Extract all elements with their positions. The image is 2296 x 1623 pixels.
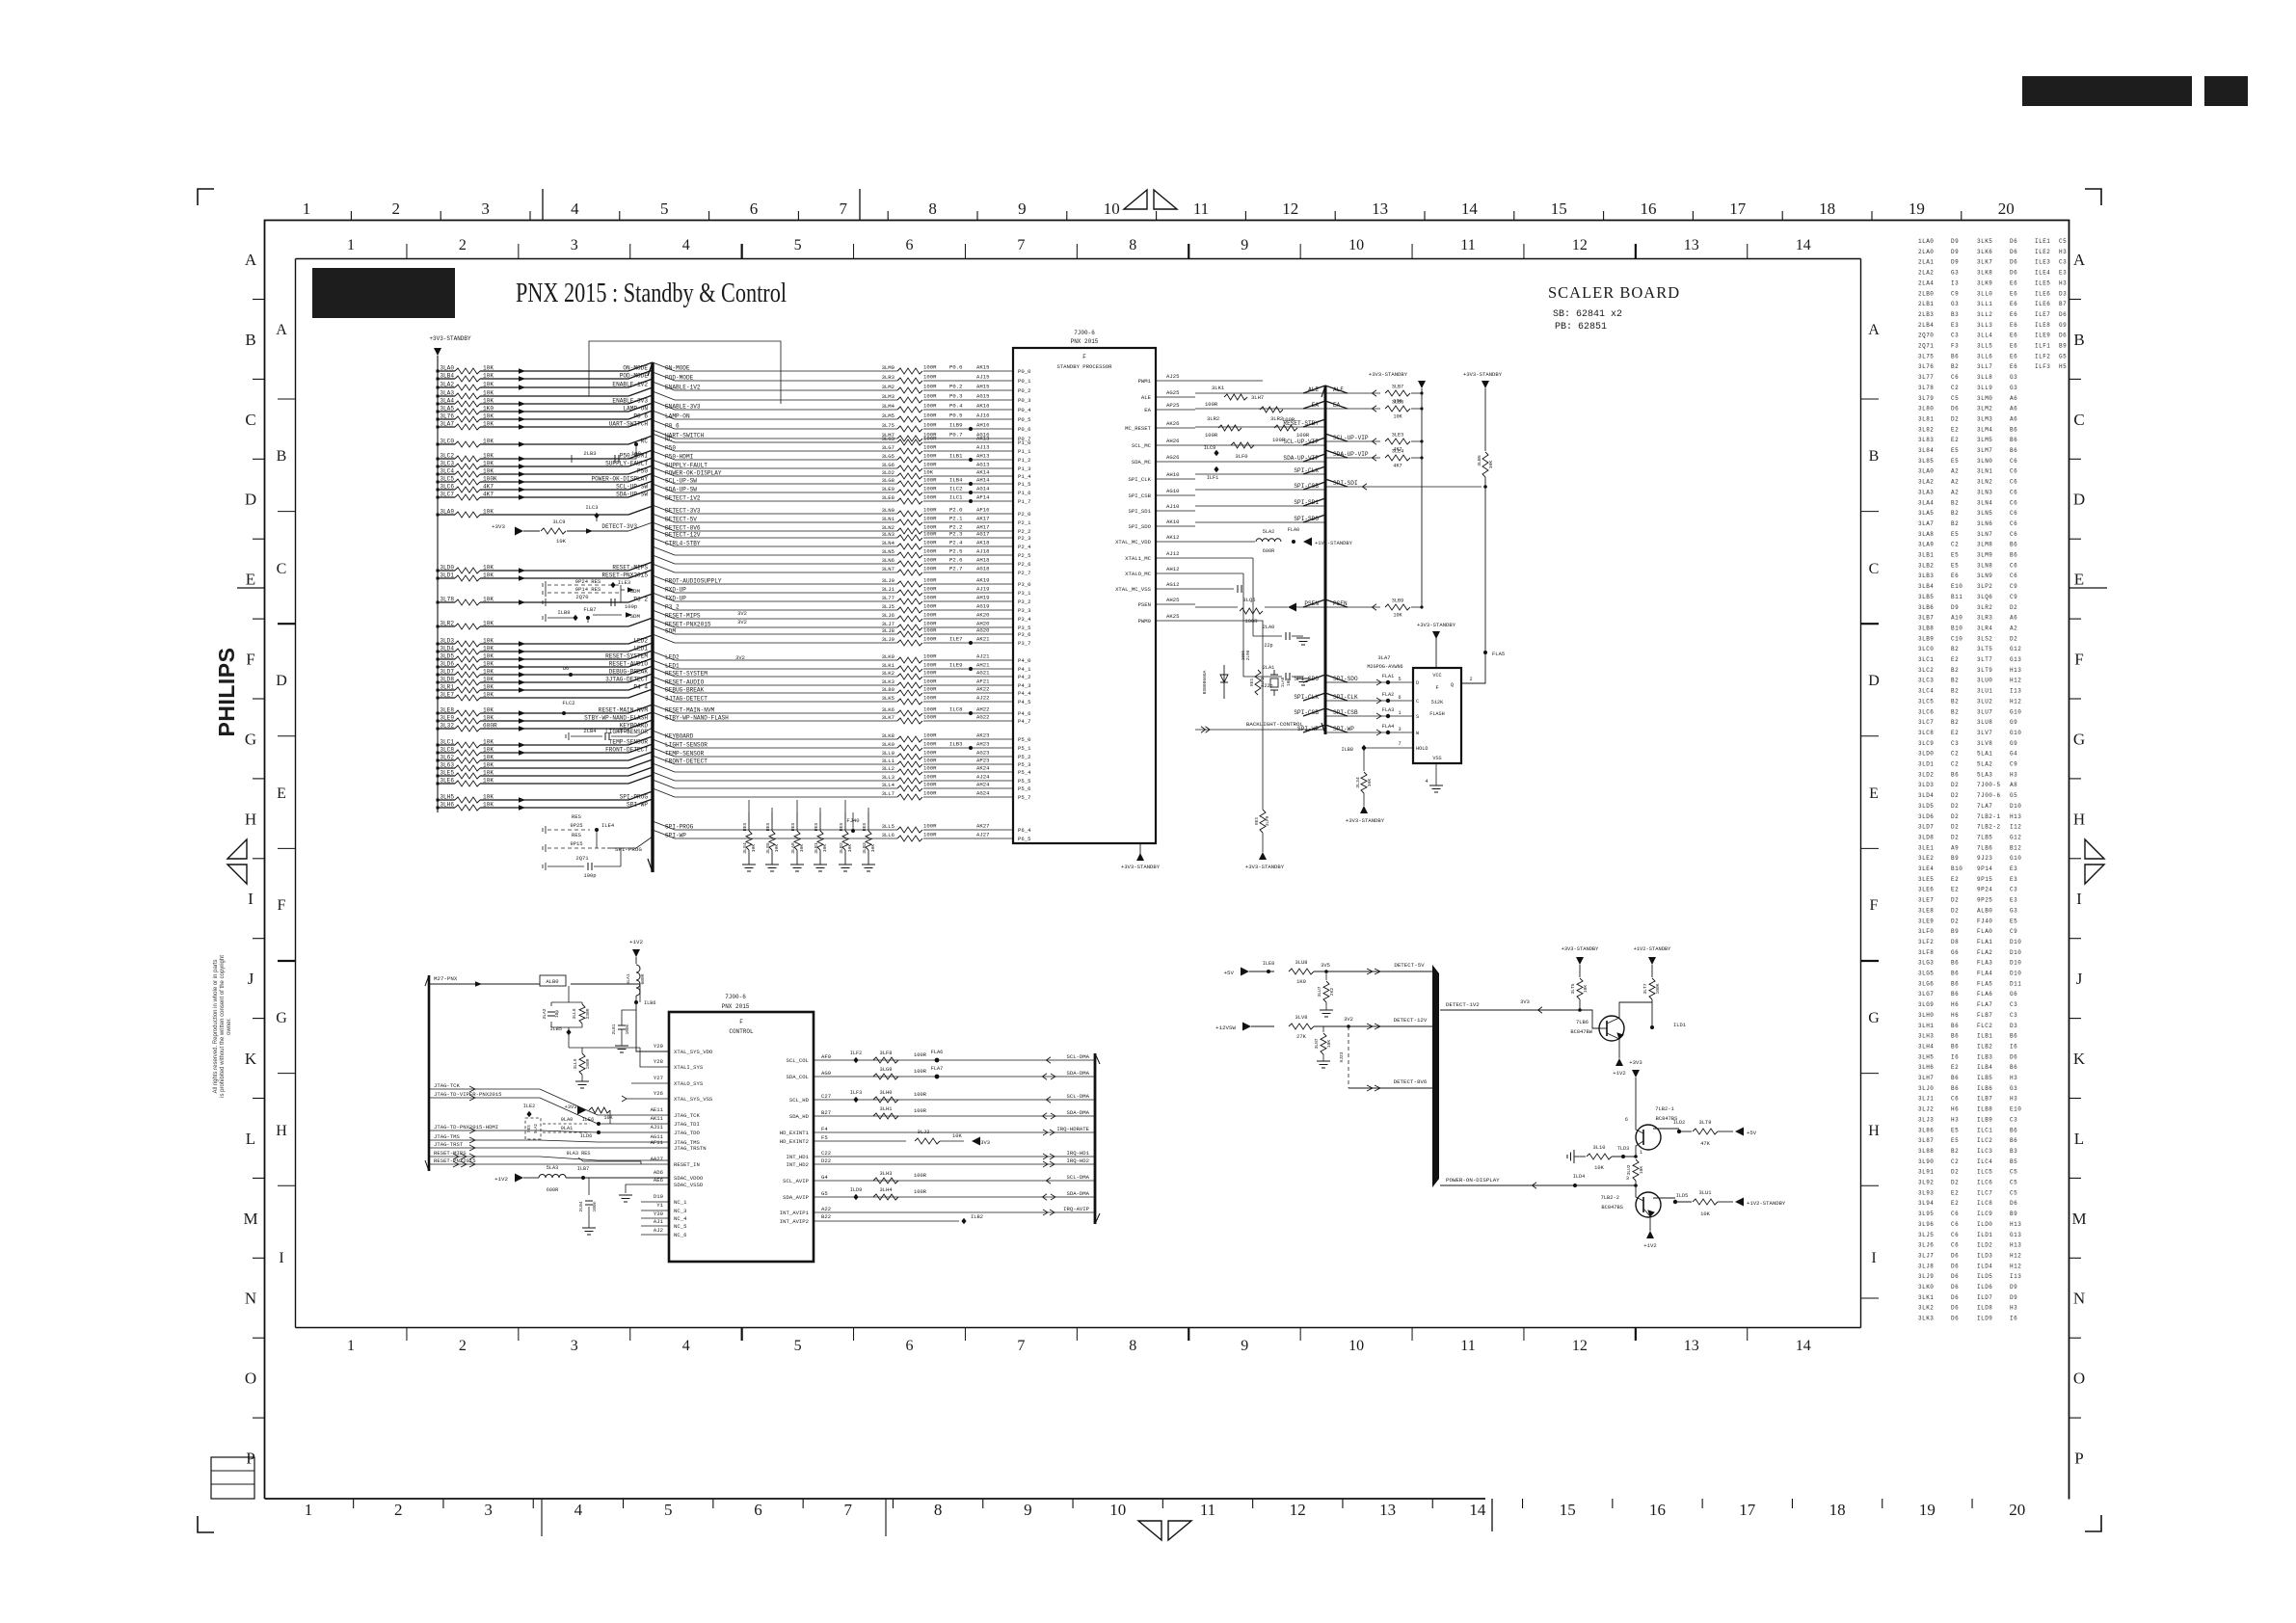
svg-text:AG15: AG15 (976, 393, 989, 400)
svg-text:8: 8 (1129, 1338, 1136, 1354)
svg-text:100R: 100R (923, 462, 937, 468)
svg-text:C6: C6 (2010, 489, 2017, 495)
svg-text:4: 4 (571, 200, 579, 218)
svg-text:6: 6 (906, 237, 914, 253)
svg-text:3L87: 3L87 (1918, 1137, 1934, 1144)
svg-text:ILC7: ILC7 (1977, 1189, 1992, 1196)
svg-text:RESET_IN: RESET_IN (674, 1161, 700, 1168)
svg-text:3L75: 3L75 (1918, 353, 1934, 359)
svg-text:3: 3 (1626, 1176, 1629, 1182)
svg-text:C6: C6 (1951, 1232, 1959, 1238)
svg-text:D10: D10 (2010, 971, 2021, 977)
svg-text:9P24 RES: 9P24 RES (575, 578, 601, 585)
svg-text:B9: B9 (1951, 855, 1959, 862)
svg-text:P5_5: P5_5 (1018, 778, 1030, 785)
svg-text:SDA_MC: SDA_MC (1132, 459, 1152, 466)
svg-text:AK26: AK26 (1166, 420, 1179, 427)
svg-text:AK16: AK16 (976, 403, 989, 410)
svg-text:3LL0: 3LL0 (1977, 290, 1992, 297)
svg-text:3LJ6: 3LJ6 (1918, 1242, 1934, 1249)
svg-text:B6: B6 (1951, 771, 1959, 778)
svg-text:3LB2: 3LB2 (1918, 562, 1934, 569)
svg-text:3LD6: 3LD6 (440, 661, 454, 668)
svg-text:G: G (1868, 1010, 1880, 1026)
svg-text:10K: 10K (483, 707, 494, 714)
svg-text:3LD7: 3LD7 (440, 669, 454, 676)
svg-text:1: 1 (303, 200, 311, 218)
svg-text:ILC1: ILC1 (949, 494, 963, 501)
svg-text:3LA8: 3LA8 (790, 842, 796, 854)
svg-text:10K: 10K (483, 739, 494, 746)
svg-text:C22: C22 (821, 1150, 831, 1157)
svg-text:FLC2: FLC2 (1977, 1023, 1992, 1029)
svg-text:100R: 100R (1205, 432, 1218, 439)
svg-text:12: 12 (1290, 1501, 1306, 1519)
svg-text:100R: 100R (923, 403, 937, 410)
svg-text:3LK2: 3LK2 (1918, 1305, 1934, 1312)
svg-text:+3V3: +3V3 (565, 1104, 577, 1110)
svg-text:+3V3-STANDBY: +3V3-STANDBY (1245, 864, 1285, 870)
svg-text:B10: B10 (1951, 625, 1962, 631)
svg-text:H12: H12 (2010, 698, 2021, 705)
svg-text:BACKLIGHT-CONTROL: BACKLIGHT-CONTROL (1246, 721, 1304, 728)
svg-text:AG9: AG9 (821, 1070, 831, 1077)
svg-text:P1_5: P1_5 (1018, 481, 1030, 488)
svg-text:G5: G5 (2010, 792, 2017, 799)
svg-text:3LF8: 3LF8 (880, 1051, 893, 1056)
svg-text:AG24: AG24 (976, 790, 990, 797)
svg-text:3LL9: 3LL9 (1977, 385, 1992, 391)
svg-text:AH16: AH16 (976, 422, 989, 429)
svg-text:3LD5: 3LD5 (440, 653, 454, 660)
svg-text:10p: 10p (554, 1010, 560, 1019)
svg-text:2Q71: 2Q71 (1918, 343, 1934, 350)
svg-text:C: C (245, 411, 255, 429)
svg-text:POWER-ON-DISPLAY: POWER-ON-DISPLAY (1446, 1177, 1500, 1184)
svg-text:2LA1: 2LA1 (1263, 665, 1274, 671)
svg-text:9: 9 (1024, 1501, 1032, 1519)
svg-text:I12: I12 (2010, 824, 2021, 831)
svg-text:3LA3: 3LA3 (1918, 489, 1934, 495)
svg-text:AH19: AH19 (976, 595, 989, 601)
svg-text:RES: RES (528, 1125, 532, 1132)
svg-text:AJ10: AJ10 (1166, 503, 1180, 510)
svg-text:330R: 330R (585, 1008, 591, 1019)
svg-text:2LA4: 2LA4 (1918, 279, 1934, 286)
svg-text:3L81: 3L81 (1918, 415, 1934, 422)
svg-text:3LN6: 3LN6 (1977, 520, 1992, 527)
svg-text:G10: G10 (2010, 855, 2021, 862)
svg-text:C6: C6 (1951, 1211, 1959, 1217)
svg-text:9LA2: 9LA2 (535, 1123, 539, 1133)
svg-text:680R: 680R (483, 723, 497, 730)
svg-text:F5: F5 (821, 1134, 828, 1141)
svg-text:9J23: 9J23 (1977, 855, 1992, 862)
svg-text:DETECT-1V2: DETECT-1V2 (665, 495, 701, 502)
svg-text:9LA0: 9LA0 (561, 1117, 573, 1123)
svg-text:G4: G4 (2010, 751, 2017, 758)
svg-text:3LN7: 3LN7 (882, 566, 894, 572)
svg-text:XTAL_MC_VDD: XTAL_MC_VDD (1115, 539, 1152, 545)
svg-text:JTAG-TMS: JTAG-TMS (434, 1133, 460, 1140)
svg-text:3LM3: 3LM3 (882, 393, 894, 400)
svg-text:3LN5: 3LN5 (1977, 510, 1992, 517)
svg-text:C: C (277, 561, 287, 577)
svg-text:PB: 62851: PB: 62851 (1555, 322, 1607, 333)
svg-text:SCALER BOARD: SCALER BOARD (1548, 283, 1680, 302)
svg-text:7: 7 (844, 1501, 853, 1519)
svg-text:D6: D6 (2010, 270, 2017, 277)
svg-text:3LA2: 3LA2 (1918, 479, 1934, 486)
svg-text:+12VSW: +12VSW (1215, 1024, 1236, 1031)
svg-text:AJ13: AJ13 (976, 444, 989, 451)
svg-text:3LG8: 3LG8 (882, 477, 894, 484)
svg-text:M2GPOG-AVWN6: M2GPOG-AVWN6 (1367, 664, 1402, 670)
svg-text:C6: C6 (1951, 374, 1959, 381)
svg-text:B3: B3 (1951, 311, 1959, 318)
svg-text:3LJ3: 3LJ3 (1918, 1116, 1934, 1123)
svg-text:B2: B2 (1951, 499, 1959, 506)
svg-text:+1V2: +1V2 (494, 1176, 508, 1183)
svg-text:AK22: AK22 (976, 686, 989, 693)
svg-text:D6: D6 (2059, 333, 2067, 339)
svg-text:3LH1: 3LH1 (880, 1106, 893, 1112)
svg-text:10K: 10K (556, 538, 567, 545)
svg-text:B9: B9 (2010, 1211, 2017, 1217)
svg-text:2LA1: 2LA1 (1918, 259, 1934, 266)
svg-text:5LA3: 5LA3 (1977, 771, 1992, 778)
svg-text:G9: G9 (2059, 322, 2067, 329)
svg-text:H13: H13 (2010, 1242, 2021, 1249)
svg-text:3L93: 3L93 (1918, 1189, 1934, 1196)
svg-text:3LK1: 3LK1 (882, 662, 895, 669)
svg-text:AF11: AF11 (651, 1139, 664, 1146)
svg-text:3LU7: 3LU7 (1977, 708, 1992, 715)
svg-text:3LN7: 3LN7 (1314, 1038, 1320, 1049)
svg-text:+3V3-STANDBY: +3V3-STANDBY (1121, 864, 1161, 870)
svg-text:100R: 100R (923, 706, 937, 713)
svg-text:10K: 10K (483, 661, 494, 668)
svg-text:P3_6: P3_6 (1018, 631, 1030, 638)
svg-text:10K: 10K (870, 844, 876, 853)
svg-text:FRONT-DETECT: FRONT-DETECT (665, 758, 707, 765)
svg-text:ILD6: ILD6 (1977, 1284, 1992, 1290)
svg-text:E3: E3 (2010, 876, 2017, 883)
svg-text:P2_0: P2_0 (1018, 511, 1031, 518)
svg-text:3LJ7: 3LJ7 (882, 621, 894, 627)
svg-text:F4: F4 (821, 1126, 828, 1132)
svg-text:G10: G10 (2010, 708, 2021, 715)
svg-text:3LE1: 3LE1 (1918, 844, 1934, 851)
svg-text:D6: D6 (2010, 1200, 2017, 1207)
svg-text:SCL_COL: SCL_COL (787, 1057, 810, 1064)
svg-text:3V2: 3V2 (737, 620, 747, 625)
svg-text:AH21: AH21 (976, 662, 990, 669)
svg-text:3LH6: 3LH6 (440, 802, 454, 809)
svg-text:LED2: LED2 (665, 654, 680, 661)
svg-text:D2: D2 (1951, 782, 1959, 788)
svg-text:3LC6: 3LC6 (440, 484, 454, 491)
svg-text:2LB1: 2LB1 (611, 1024, 617, 1034)
svg-text:3LJ1: 3LJ1 (1918, 1096, 1934, 1103)
svg-text:2LB4: 2LB4 (583, 728, 597, 734)
svg-text:RESET-SYSTEM: RESET-SYSTEM (605, 653, 648, 660)
svg-text:600R: 600R (640, 973, 646, 984)
svg-text:PROT-AUDIOSUPPLY: PROT-AUDIOSUPPLY (665, 578, 722, 585)
svg-text:2LB4: 2LB4 (1918, 322, 1934, 329)
svg-text:3LH5: 3LH5 (1918, 1053, 1934, 1060)
svg-text:1: 1 (1398, 710, 1401, 716)
svg-text:3: 3 (484, 1501, 493, 1519)
svg-text:RESET-AUDIO: RESET-AUDIO (665, 679, 705, 686)
svg-text:SCL-UP-SW: SCL-UP-SW (665, 478, 697, 485)
svg-text:F: F (1870, 897, 1879, 914)
svg-text:3LD0: 3LD0 (440, 565, 454, 572)
svg-text:G12: G12 (2010, 834, 2021, 840)
svg-text:5LA2: 5LA2 (1977, 761, 1992, 768)
svg-text:H: H (2073, 810, 2085, 828)
svg-text:H3: H3 (2010, 771, 2017, 778)
svg-text:3LP9: 3LP9 (1266, 815, 1270, 826)
svg-text:100R: 100R (923, 486, 937, 492)
svg-text:C6: C6 (2010, 510, 2017, 517)
svg-text:13: 13 (1684, 237, 1699, 253)
svg-text:3LE8: 3LE8 (1918, 907, 1934, 914)
svg-text:F: F (2074, 651, 2083, 669)
svg-text:D2: D2 (1951, 824, 1959, 831)
svg-text:P3_7: P3_7 (1018, 640, 1030, 647)
svg-text:SPI_SD1: SPI_SD1 (1129, 508, 1152, 515)
svg-text:10K: 10K (483, 597, 494, 603)
svg-text:E: E (2074, 571, 2084, 589)
svg-text:D2: D2 (1951, 1169, 1959, 1176)
svg-text:F: F (1082, 354, 1086, 360)
svg-text:3LR2: 3LR2 (440, 621, 454, 627)
svg-text:P4_5: P4_5 (1018, 699, 1030, 705)
svg-text:C6: C6 (2010, 531, 2017, 538)
svg-text:2: 2 (392, 200, 401, 218)
svg-text:D10: D10 (2010, 939, 2021, 945)
svg-text:100R: 100R (923, 477, 937, 484)
svg-text:3LH7: 3LH7 (1918, 1075, 1934, 1081)
svg-text:B22: B22 (821, 1213, 831, 1220)
svg-text:G: G (2073, 730, 2085, 748)
svg-text:AK23: AK23 (976, 732, 989, 739)
svg-text:A: A (276, 322, 287, 338)
svg-text:2: 2 (394, 1501, 403, 1519)
svg-text:3LL7: 3LL7 (882, 790, 894, 797)
svg-text:C: C (2073, 411, 2084, 429)
svg-text:AK11: AK11 (651, 1115, 664, 1122)
svg-text:3LN8: 3LN8 (1977, 562, 1992, 569)
svg-text:100R: 100R (923, 782, 937, 788)
svg-text:10K: 10K (483, 439, 494, 445)
svg-text:D6: D6 (1951, 1273, 1959, 1280)
svg-text:10K: 10K (1639, 1166, 1644, 1175)
svg-text:100R: 100R (923, 507, 937, 514)
svg-text:AG13: AG13 (976, 462, 989, 468)
svg-text:SDA_COL: SDA_COL (787, 1074, 810, 1080)
svg-text:+1V2-STANDBY: +1V2-STANDBY (1315, 541, 1353, 546)
svg-text:3LG3: 3LG3 (882, 436, 894, 442)
svg-text:LED1: LED1 (665, 663, 680, 670)
svg-text:P2_5: P2_5 (1018, 552, 1030, 559)
svg-text:10K: 10K (1393, 414, 1402, 420)
svg-text:E5: E5 (1951, 1137, 1959, 1144)
svg-text:2LA0: 2LA0 (1918, 249, 1934, 255)
svg-text:AH24: AH24 (976, 782, 990, 788)
svg-text:5LA1: 5LA1 (1977, 751, 1992, 758)
svg-text:AG23: AG23 (976, 750, 989, 757)
svg-text:3LN6: 3LN6 (882, 557, 894, 564)
svg-text:10: 10 (1104, 200, 1120, 218)
svg-text:3LD7: 3LD7 (1918, 824, 1934, 831)
svg-text:FLB7: FLB7 (583, 606, 596, 613)
svg-text:3LN3: 3LN3 (882, 531, 894, 538)
svg-text:ILB9: ILB9 (1977, 1116, 1992, 1123)
svg-text:3LL3: 3LL3 (1977, 322, 1992, 329)
svg-text:3LA7: 3LA7 (440, 421, 454, 428)
svg-text:C: C (1869, 561, 1880, 577)
svg-text:D22: D22 (821, 1157, 831, 1164)
svg-text:3L95: 3L95 (1918, 1211, 1934, 1217)
svg-text:PSEN: PSEN (1138, 601, 1151, 608)
svg-text:B7: B7 (2059, 301, 2067, 307)
svg-text:POWER-OK-DISPLAY: POWER-OK-DISPLAY (665, 470, 722, 477)
svg-text:12: 12 (1282, 200, 1298, 218)
svg-text:A: A (1868, 322, 1880, 338)
svg-text:IRQ-HD1: IRQ-HD1 (1067, 1150, 1090, 1157)
svg-text:10K: 10K (483, 747, 494, 754)
svg-text:P0.0: P0.0 (949, 364, 963, 371)
svg-text:I13: I13 (2010, 688, 2021, 695)
svg-text:3LB7: 3LB7 (1918, 615, 1934, 622)
svg-text:H13: H13 (2010, 1221, 2021, 1228)
svg-text:P1_1: P1_1 (1018, 448, 1031, 455)
svg-text:3LM8: 3LM8 (1977, 542, 1992, 548)
svg-text:D6: D6 (1951, 1284, 1959, 1290)
svg-text:NC_4: NC_4 (674, 1215, 687, 1222)
svg-text:D9: D9 (1951, 604, 1959, 611)
svg-text:7: 7 (840, 200, 848, 218)
svg-text:AF14: AF14 (976, 494, 990, 501)
svg-text:G13: G13 (2010, 656, 2021, 663)
svg-text:ALE: ALE (1141, 394, 1152, 401)
svg-text:G: G (276, 1010, 287, 1026)
svg-text:2: 2 (459, 1338, 467, 1354)
svg-text:ILC4: ILC4 (1977, 1158, 1992, 1165)
svg-text:3LG9: 3LG9 (1918, 1001, 1934, 1008)
svg-text:3LR3: 3LR3 (1977, 615, 1992, 622)
svg-text:MC_RESET: MC_RESET (1125, 425, 1151, 432)
svg-text:3LE6: 3LE6 (1918, 887, 1934, 893)
svg-text:E3: E3 (2059, 270, 2067, 277)
svg-text:XTALI_SYS: XTALI_SYS (674, 1064, 704, 1071)
svg-text:AJ1: AJ1 (654, 1218, 664, 1225)
svg-text:5: 5 (794, 237, 802, 253)
svg-text:3LB4: 3LB4 (1918, 583, 1934, 590)
svg-text:P4_1: P4_1 (1018, 666, 1031, 673)
svg-text:3LB3: 3LB3 (862, 842, 868, 854)
svg-text:B9: B9 (2059, 343, 2067, 350)
svg-text:ILF1: ILF1 (2035, 343, 2050, 350)
svg-text:E10: E10 (1951, 583, 1962, 590)
svg-text:3LM0: 3LM0 (882, 364, 895, 371)
svg-text:3LK1: 3LK1 (1212, 385, 1225, 391)
svg-text:B2: B2 (1951, 1148, 1959, 1155)
svg-text:3LA7: 3LA7 (1918, 520, 1934, 527)
svg-text:FLA5: FLA5 (1977, 980, 1992, 987)
svg-text:NC_1: NC_1 (674, 1199, 687, 1206)
svg-text:3LJ9: 3LJ9 (1918, 1273, 1934, 1280)
svg-text:P2.5: P2.5 (949, 548, 962, 555)
svg-text:3LC1: 3LC1 (1918, 656, 1934, 663)
svg-text:SPI-PROG: SPI-PROG (615, 846, 642, 853)
svg-text:D6: D6 (2010, 238, 2017, 245)
svg-text:3LM9: 3LM9 (1977, 552, 1992, 559)
svg-text:AH10: AH10 (1166, 471, 1180, 478)
svg-text:B2: B2 (1951, 688, 1959, 695)
svg-text:4K7: 4K7 (1393, 464, 1402, 469)
svg-text:A9: A9 (1951, 844, 1959, 851)
svg-text:D: D (276, 673, 287, 689)
svg-text:SDA-DMA: SDA-DMA (1067, 1190, 1090, 1197)
svg-text:NC_6: NC_6 (674, 1232, 686, 1238)
svg-text:3LC8: 3LC8 (1918, 730, 1934, 736)
svg-text:SPI_CSB: SPI_CSB (1129, 492, 1152, 499)
svg-text:SPI_CLK: SPI_CLK (1129, 476, 1152, 483)
svg-text:3LL9: 3LL9 (573, 1058, 578, 1069)
svg-text:18: 18 (1819, 200, 1835, 218)
svg-text:E6: E6 (2010, 363, 2017, 370)
svg-text:O: O (245, 1370, 256, 1388)
svg-text:3LB9: 3LB9 (1918, 635, 1934, 642)
svg-text:4K7: 4K7 (483, 484, 494, 491)
svg-text:100R: 100R (923, 566, 937, 572)
svg-text:TLD3: TLD3 (1617, 1146, 1629, 1152)
svg-text:3LK5: 3LK5 (882, 695, 894, 702)
svg-text:11: 11 (1460, 237, 1475, 253)
svg-text:AK15: AK15 (976, 364, 989, 371)
svg-text:ILE7: ILE7 (2035, 311, 2050, 318)
svg-text:C9: C9 (2010, 928, 2017, 935)
svg-text:owner.: owner. (227, 1018, 232, 1035)
svg-text:3LM5: 3LM5 (1977, 437, 1992, 443)
svg-text:ILC8: ILC8 (1977, 1200, 1992, 1207)
svg-text:2LB3: 2LB3 (1918, 311, 1934, 318)
svg-text:7LB2-2: 7LB2-2 (1601, 1195, 1619, 1201)
svg-text:3LK0: 3LK0 (1918, 1284, 1934, 1290)
svg-text:3LL4: 3LL4 (1977, 333, 1992, 339)
svg-text:100R: 100R (923, 577, 937, 584)
svg-text:C5: C5 (2059, 238, 2067, 245)
svg-text:ILB3: ILB3 (1977, 1053, 1992, 1060)
svg-text:3LC2: 3LC2 (440, 453, 454, 460)
svg-text:3LT9: 3LT9 (1699, 1120, 1712, 1126)
svg-text:11: 11 (1193, 200, 1209, 218)
svg-text:C6: C6 (2010, 562, 2017, 569)
svg-text:XTAL1_MC: XTAL1_MC (1125, 555, 1151, 562)
svg-text:AJ15: AJ15 (976, 374, 989, 381)
svg-text:3L34: 3L34 (1355, 777, 1361, 788)
svg-text:100R: 100R (1282, 416, 1295, 423)
svg-text:LED2: LED2 (633, 638, 648, 645)
svg-text:P0_6: P0_6 (1018, 426, 1030, 433)
svg-text:P3_4: P3_4 (1018, 616, 1031, 623)
svg-text:B6: B6 (2010, 1127, 2017, 1133)
svg-text:10K: 10K (1700, 1211, 1710, 1217)
svg-text:P6_4: P6_4 (1018, 827, 1031, 834)
